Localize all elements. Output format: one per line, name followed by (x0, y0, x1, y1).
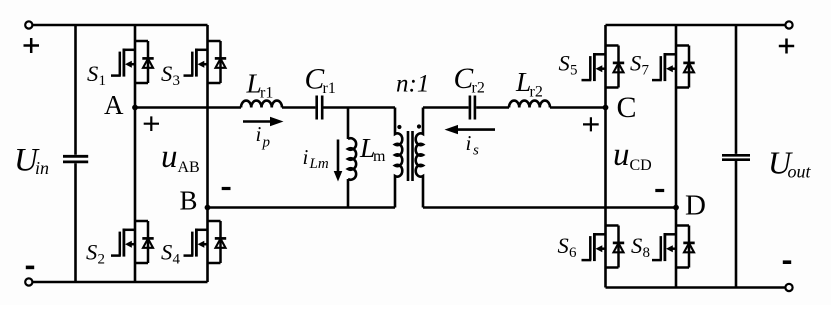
svg-text:m: m (373, 148, 386, 165)
wire right bottom rail (606, 286, 786, 289)
plus label input top (24, 38, 40, 53)
transistor Q S7 (652, 46, 695, 88)
capacitor Cr1 plates (317, 96, 323, 120)
svg-text:3: 3 (173, 73, 181, 89)
svg-text:i: i (466, 131, 472, 155)
transistor Q S5 (582, 46, 625, 88)
node B dot (205, 205, 211, 211)
node A dot (132, 105, 138, 111)
transistor Q S6 (582, 226, 625, 268)
minus label input bottom (26, 266, 34, 270)
node C dot (603, 105, 609, 111)
plus label uAB (144, 116, 159, 131)
svg-text:i: i (256, 122, 262, 146)
inductor Lr2 (509, 101, 550, 108)
svg-text:r1: r1 (323, 80, 336, 97)
wire node A to Lr1 (135, 106, 241, 109)
svg-text:AB: AB (178, 159, 200, 176)
wire Lm branch bottom (347, 179, 350, 208)
svg-text:4: 4 (173, 251, 181, 267)
svg-text:r2: r2 (472, 80, 485, 97)
arrow is (458, 128, 495, 131)
wire bridge leg S3 S4 (206, 25, 209, 282)
wire Lr2 to node C (550, 106, 606, 109)
inductor Lm (348, 138, 356, 179)
capacitor Cout plates (722, 155, 750, 159)
svg-text:C: C (617, 91, 637, 124)
svg-text:S: S (161, 61, 172, 86)
svg-text:u: u (161, 139, 178, 175)
svg-text:Lm: Lm (309, 156, 329, 172)
wire secondary top to Cr2 (423, 106, 469, 109)
svg-text:S: S (558, 233, 569, 258)
minus label output bottom (783, 260, 791, 264)
minus label uAB (222, 187, 231, 190)
wire Lm branch top (347, 108, 350, 140)
svg-text:B: B (180, 186, 198, 216)
terminal bottom-left (25, 278, 32, 285)
minus label uCD (655, 189, 664, 192)
arrow iLm (337, 140, 340, 173)
svg-text:CD: CD (630, 157, 652, 174)
transformer T1 core (408, 131, 413, 181)
transistor Q S1 (111, 41, 154, 83)
node D dot (673, 205, 679, 211)
capacitor Cin branch wire bottom (74, 163, 77, 282)
terminal bottom-right (785, 284, 792, 291)
capacitor Cr2 plates (470, 96, 475, 120)
capacitor Cin plates (63, 156, 88, 162)
svg-text:u: u (613, 137, 630, 173)
svg-text:7: 7 (642, 62, 650, 78)
wire bridge leg S1 S2 (134, 25, 137, 282)
svg-text:out: out (788, 162, 812, 182)
capacitor Cout branch wire top (735, 25, 738, 154)
svg-text:S: S (161, 239, 172, 264)
svg-text:1: 1 (99, 73, 107, 89)
svg-text:5: 5 (570, 62, 578, 78)
wire bottom B to transformer (208, 206, 396, 209)
capacitor Cout branch wire bottom (735, 161, 738, 288)
svg-text:n:1: n:1 (396, 71, 429, 98)
transistor Q S2 (111, 221, 154, 263)
svg-text:S: S (630, 50, 641, 75)
wire Lr1 to Cr1 (282, 106, 315, 109)
svg-text:S: S (87, 61, 98, 86)
svg-text:6: 6 (569, 245, 577, 261)
svg-text:p: p (262, 135, 271, 151)
wire left top rail (33, 24, 208, 27)
svg-text:D: D (685, 190, 706, 222)
svg-text:2: 2 (98, 251, 106, 267)
svg-text:s: s (473, 143, 479, 159)
wire bridge leg S7 S8 (675, 25, 678, 288)
plus label output top (779, 39, 794, 54)
wire right top rail (606, 24, 786, 27)
svg-text:in: in (35, 158, 49, 178)
svg-text:S: S (631, 233, 642, 258)
transistor Q S3 (184, 41, 227, 83)
plus label uCD (583, 117, 599, 131)
svg-text:C: C (305, 64, 325, 96)
wire Cr2 to Lr2 (476, 106, 509, 109)
svg-text:A: A (104, 90, 124, 120)
svg-text:S: S (559, 50, 570, 75)
wire bridge leg S5 S6 (604, 25, 607, 288)
terminal top-left (25, 21, 32, 28)
svg-text:C: C (454, 63, 474, 95)
wire secondary bottom to node D (423, 206, 676, 209)
transformer T1 secondary winding (416, 108, 423, 208)
svg-text:8: 8 (643, 245, 651, 261)
arrow ip (243, 120, 272, 123)
transformer T1 primary winding (395, 108, 402, 208)
svg-text:r1: r1 (260, 85, 273, 102)
transformer T1 secondary polarity dot (417, 124, 421, 128)
svg-text:S: S (86, 239, 97, 264)
wire Cr1 to transformer (324, 106, 396, 109)
svg-text:r2: r2 (530, 84, 543, 101)
wire left bottom rail (33, 281, 208, 284)
transistor Q S8 (652, 226, 695, 268)
svg-text:i: i (303, 145, 309, 169)
inductor Lr1 (241, 101, 282, 108)
transistor Q S4 (184, 221, 227, 263)
terminal top-right (785, 21, 792, 28)
capacitor Cin branch wire top (74, 25, 77, 155)
transformer T1 primary polarity dot (397, 125, 401, 129)
